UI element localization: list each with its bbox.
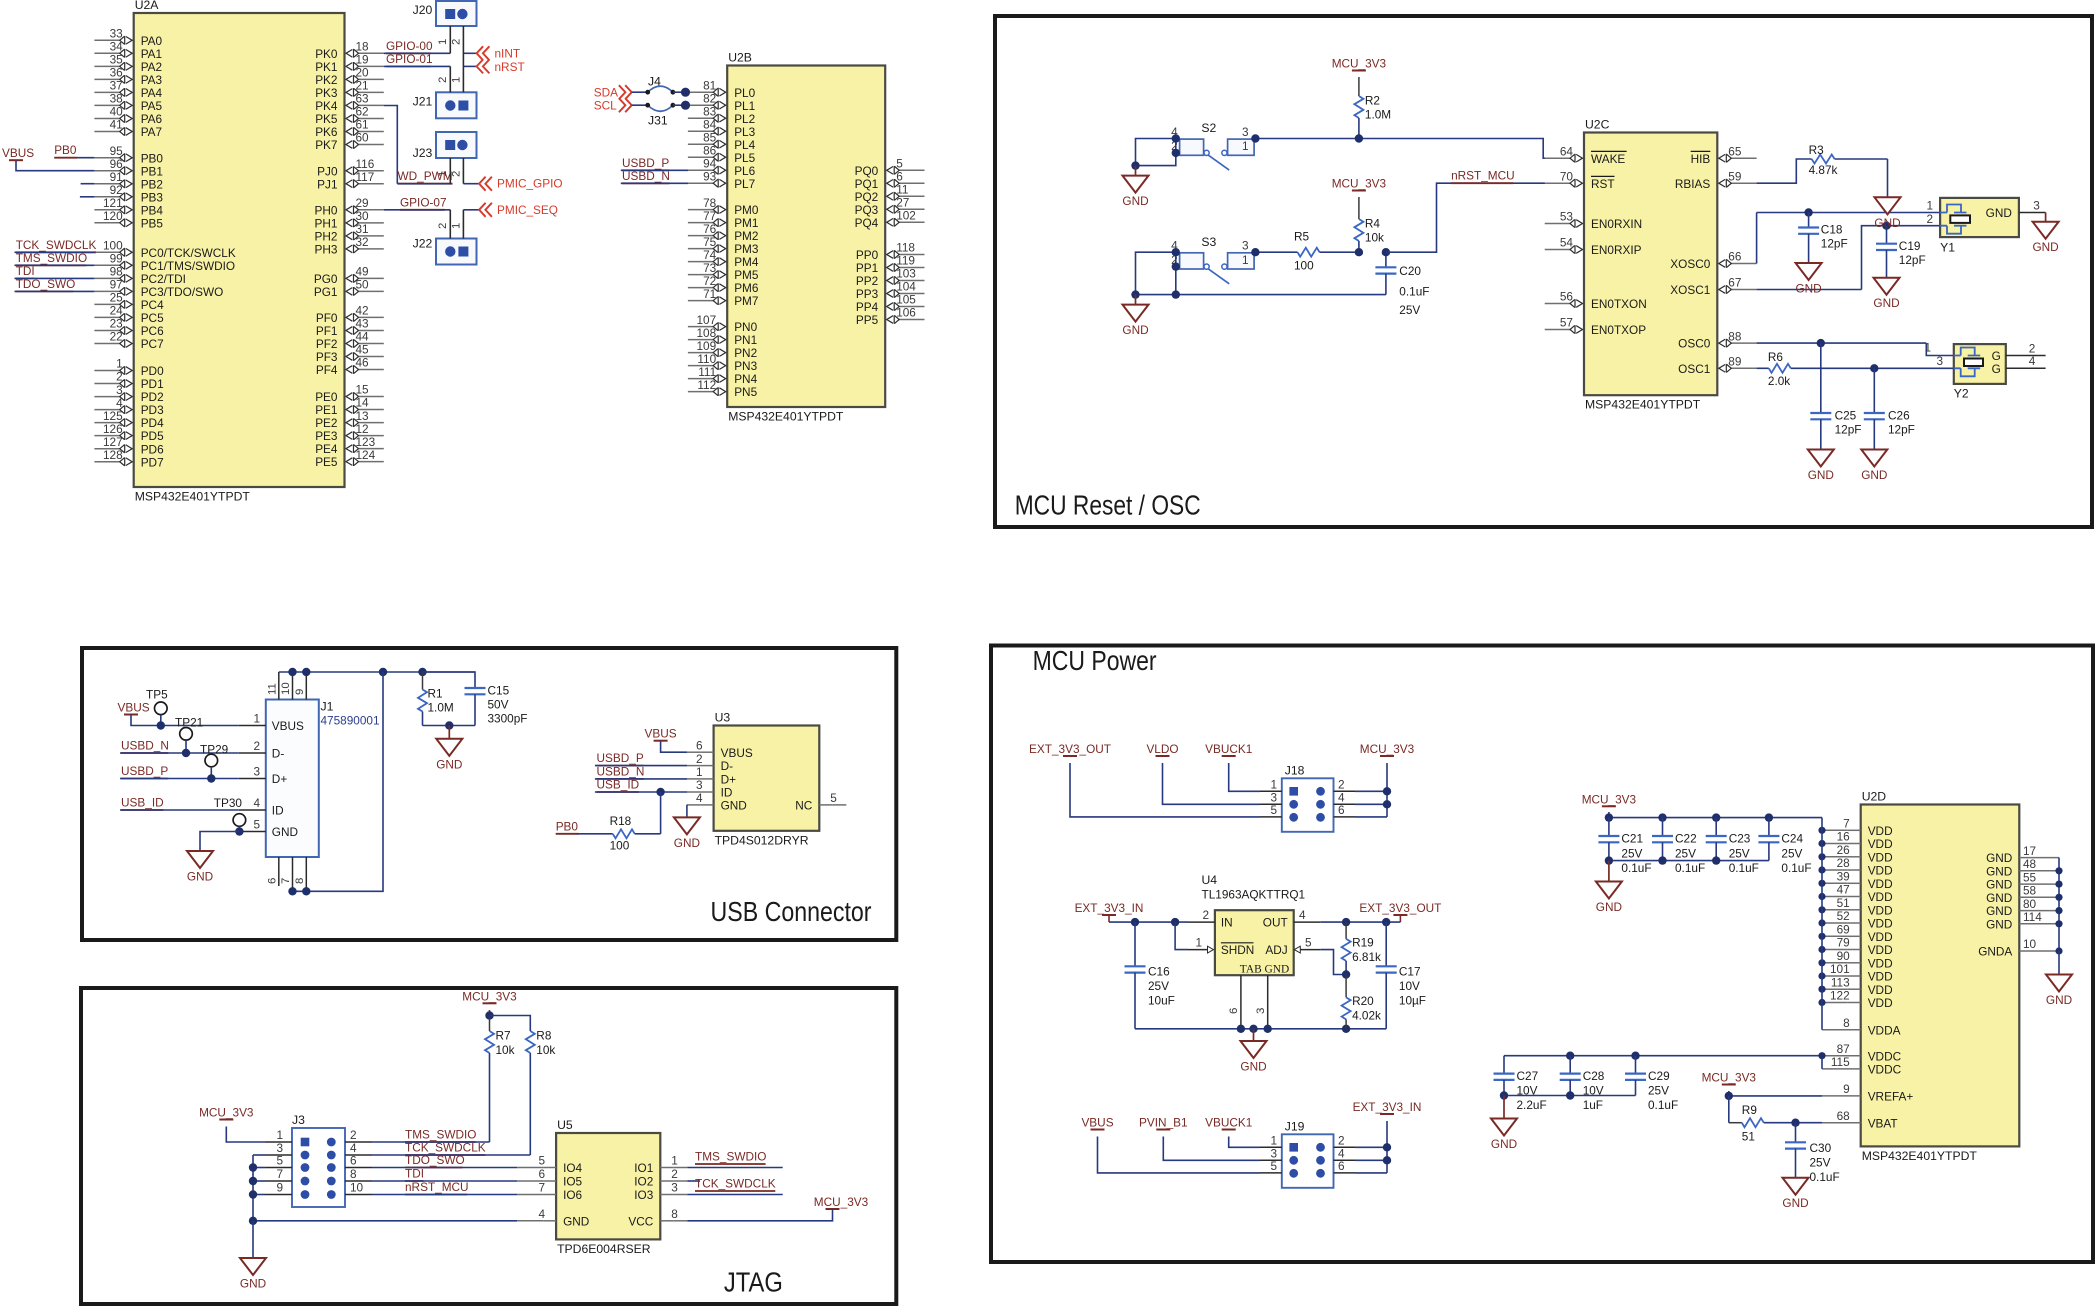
- J20 pin 2 lead: [462, 26, 464, 66]
- junction GNDA: [2055, 947, 2062, 954]
- svg-text:100: 100: [1294, 258, 1314, 272]
- svg-text:OSC1: OSC1: [1678, 362, 1710, 376]
- svg-text:OUT: OUT: [1263, 916, 1288, 930]
- svg-text:D-: D-: [272, 747, 285, 761]
- U2D pin 55 GND: [2019, 883, 2059, 885]
- svg-text:EXT_3V3_IN: EXT_3V3_IN: [1075, 901, 1144, 915]
- U2A pin 3 PD2: [94, 396, 120, 398]
- svg-text:28: 28: [1837, 856, 1851, 870]
- U2D pin 122 VDD: [1822, 1002, 1848, 1004]
- U5 pin 6 IO5: [517, 1180, 543, 1182]
- svg-text:C28: C28: [1583, 1069, 1605, 1083]
- svg-text:VBUS: VBUS: [645, 727, 677, 741]
- IC U2D (MSP432E401YTPDT, power pins): [1861, 805, 2020, 1147]
- svg-text:110: 110: [697, 352, 716, 366]
- wire net USBD_N to J1 pin 2: [120, 752, 239, 754]
- junction C20 top: [1382, 248, 1390, 256]
- svg-text:S3: S3: [1201, 235, 1216, 249]
- svg-text:1: 1: [276, 1128, 283, 1142]
- junction pin10: [288, 668, 296, 676]
- svg-text:25V: 25V: [1810, 1155, 1831, 1169]
- wire net TCK_SWDCLK (U5 IO3): [687, 1194, 782, 1196]
- wire net TDO_SWO: [15, 290, 95, 292]
- svg-text:ID: ID: [721, 786, 733, 800]
- svg-text:VDD: VDD: [1868, 903, 1893, 917]
- ground symbol at C26: [1873, 449, 1875, 451]
- svg-text:ADJ: ADJ: [1265, 943, 1287, 957]
- svg-text:R8: R8: [536, 1029, 552, 1043]
- U3 pin 5 NC: [832, 804, 846, 806]
- section box JTAG: [81, 988, 896, 1304]
- U2C pin 65 HIB: [1730, 157, 1756, 159]
- svg-text:PVIN_B1: PVIN_B1: [1139, 1116, 1188, 1130]
- U2D pin 52 VDD: [1822, 922, 1848, 924]
- svg-text:125: 125: [103, 409, 123, 423]
- capacitor C23 0.1uF 25V: [1715, 818, 1717, 836]
- svg-text:GND: GND: [1986, 917, 2012, 931]
- U3 pin 2 D-: [687, 765, 701, 767]
- U2B pin 111 PN4: [688, 378, 714, 380]
- J18 pin 6 stub: [1334, 816, 1356, 818]
- J22 pin 1 lead: [462, 210, 464, 239]
- U2A pin 40 PA6: [94, 118, 120, 120]
- svg-text:VDD: VDD: [1868, 943, 1893, 957]
- svg-text:MCU Power: MCU Power: [1033, 645, 1157, 676]
- wire net VBUS to PB1: [16, 160, 94, 171]
- junction TP21: [182, 749, 190, 757]
- svg-text:2.2uF: 2.2uF: [1517, 1098, 1547, 1112]
- svg-text:GND: GND: [1122, 194, 1148, 208]
- svg-text:73: 73: [703, 261, 717, 275]
- svg-text:PN5: PN5: [734, 385, 757, 399]
- svg-text:12pF: 12pF: [1835, 423, 1862, 437]
- svg-text:79: 79: [1837, 936, 1850, 950]
- U5 pin 8 VCC: [673, 1220, 687, 1222]
- U2C pin 88 OSC0: [1730, 342, 1756, 344]
- svg-text:21: 21: [356, 79, 369, 93]
- svg-text:PC3/TDO/SWO: PC3/TDO/SWO: [141, 285, 224, 299]
- U2A pin 117 PJ1: [358, 183, 384, 185]
- svg-text:101: 101: [1830, 962, 1850, 976]
- svg-text:VBUS: VBUS: [1081, 1116, 1113, 1130]
- svg-text:122: 122: [1830, 989, 1850, 1003]
- crystal Y2: [1954, 344, 2006, 384]
- U2D pin 115 VDDC: [1822, 1068, 1861, 1070]
- U2A pin 91 PB2: [94, 183, 120, 185]
- wire VBUS to J19 pin 5: [1098, 1137, 1261, 1173]
- svg-text:PK4: PK4: [315, 99, 338, 113]
- U2D pin 16 VDD: [1822, 843, 1848, 845]
- svg-text:J22: J22: [413, 237, 433, 251]
- IC U2A (MSP432E401YTPDT, port A-K section): [134, 13, 345, 487]
- wire stub PB2: [81, 183, 95, 185]
- U2B pin 11 PQ2: [898, 195, 924, 197]
- svg-text:GND: GND: [272, 825, 298, 839]
- svg-text:65: 65: [1728, 144, 1742, 158]
- svg-text:C30: C30: [1810, 1141, 1832, 1155]
- capacitor C21 0.1uF 25V: [1608, 818, 1610, 836]
- U2B pin 77 PM1: [688, 222, 714, 224]
- svg-text:25: 25: [110, 291, 124, 305]
- svg-text:PG1: PG1: [314, 285, 338, 299]
- svg-text:5: 5: [276, 1154, 283, 1168]
- U2D pin 68 VBAT: [1822, 1122, 1861, 1124]
- wire VBUCK1 to J19 pin 1: [1229, 1137, 1260, 1148]
- U2B pin 106 PP5: [898, 319, 924, 321]
- junction S2 pin 3 to wire: [1251, 134, 1259, 142]
- svg-text:PA4: PA4: [141, 86, 163, 100]
- svg-text:19: 19: [356, 53, 369, 67]
- svg-text:84: 84: [703, 117, 717, 131]
- svg-text:2: 2: [451, 171, 463, 177]
- U2B pin 5 PQ0: [898, 169, 924, 171]
- J18 pin 1 stub: [1260, 790, 1282, 792]
- svg-text:66: 66: [1728, 250, 1742, 264]
- svg-text:59: 59: [1728, 169, 1741, 183]
- svg-text:7: 7: [1843, 817, 1850, 831]
- junction TP29: [207, 774, 215, 782]
- svg-text:nRST: nRST: [495, 60, 525, 74]
- U2B pin 103 PP2: [898, 280, 924, 282]
- svg-text:PP1: PP1: [856, 261, 878, 275]
- svg-text:4: 4: [116, 396, 123, 410]
- svg-text:MCU Reset / OSC: MCU Reset / OSC: [1015, 489, 1201, 520]
- U2B pin 107 PN0: [688, 326, 714, 328]
- svg-text:42: 42: [356, 304, 369, 318]
- svg-text:108: 108: [697, 326, 717, 340]
- U4 pin 6 TAB: [1240, 975, 1242, 1029]
- svg-text:115: 115: [1831, 1055, 1850, 1069]
- svg-text:107: 107: [697, 313, 717, 327]
- wire net TCK_SWDCLK: [15, 251, 95, 253]
- svg-text:PM0: PM0: [734, 203, 759, 217]
- svg-text:U3: U3: [715, 711, 731, 725]
- svg-text:4.87k: 4.87k: [1809, 163, 1838, 177]
- svg-text:2: 2: [1202, 908, 1209, 922]
- U2A pin 44 PF2: [358, 343, 384, 345]
- wire ADJ to R19/R20: [1321, 950, 1346, 975]
- svg-text:12pF: 12pF: [1888, 423, 1915, 437]
- svg-text:R9: R9: [1742, 1103, 1757, 1117]
- junction J19 pin4: [1383, 1156, 1391, 1164]
- U2A pin 127 PD6: [94, 448, 120, 450]
- svg-text:PH2: PH2: [315, 230, 338, 244]
- svg-text:0.1uF: 0.1uF: [1675, 861, 1705, 875]
- svg-text:GND: GND: [2032, 240, 2058, 254]
- U2B pin 83 PL2: [688, 117, 714, 119]
- svg-text:91: 91: [110, 170, 123, 184]
- svg-text:PQ0: PQ0: [855, 164, 879, 178]
- junction R1 top: [418, 668, 426, 676]
- svg-text:USBD_P: USBD_P: [622, 156, 669, 170]
- svg-text:45: 45: [356, 343, 370, 357]
- svg-text:PQ2: PQ2: [855, 190, 879, 204]
- U2A pin 50 PG1: [358, 290, 384, 292]
- svg-text:PB3: PB3: [141, 190, 164, 204]
- svg-text:JTAG: JTAG: [724, 1267, 783, 1298]
- svg-text:U2C: U2C: [1585, 118, 1610, 132]
- junction C21 gnd: [1605, 856, 1613, 864]
- harness arrow PMIC_GPIO: [479, 177, 492, 191]
- svg-text:MCU_3V3: MCU_3V3: [1332, 57, 1387, 71]
- svg-text:9: 9: [294, 689, 306, 695]
- svg-text:PC7: PC7: [141, 337, 164, 351]
- U2A pin 2 PD1: [94, 383, 120, 385]
- svg-text:PL2: PL2: [734, 112, 755, 126]
- junction pin9: [302, 668, 310, 676]
- svg-text:475890001: 475890001: [321, 714, 380, 728]
- U5 pin 7 IO6: [517, 1194, 543, 1196]
- svg-text:PA3: PA3: [141, 73, 163, 87]
- U2D pin 48 GND: [2019, 870, 2059, 872]
- svg-text:126: 126: [103, 422, 123, 436]
- ground symbol at C25: [1820, 449, 1822, 451]
- svg-text:GND: GND: [563, 1214, 589, 1228]
- wire net TMS_SWDIO (U5 IO1): [687, 1167, 782, 1169]
- svg-text:GND: GND: [674, 836, 700, 850]
- svg-text:Y2: Y2: [1954, 387, 1969, 401]
- svg-text:44: 44: [356, 330, 370, 344]
- svg-text:5: 5: [1270, 803, 1277, 817]
- svg-text:7: 7: [276, 1167, 283, 1181]
- svg-text:PF0: PF0: [316, 311, 338, 325]
- U5 pin 1 IO1: [673, 1167, 687, 1169]
- U2A pin 25 PC4: [94, 303, 120, 305]
- capacitor C24 0.1uF 25V: [1768, 818, 1770, 836]
- svg-text:3: 3: [696, 778, 703, 792]
- svg-text:R20: R20: [1352, 994, 1374, 1008]
- U2B pin 102 PQ4: [898, 221, 924, 223]
- svg-text:Y1: Y1: [1940, 241, 1955, 255]
- svg-text:PB5: PB5: [141, 216, 164, 230]
- junction C28 top: [1566, 1052, 1574, 1060]
- section box MCU Power: [991, 646, 2093, 1263]
- U2B pin 112 PN5: [688, 391, 714, 393]
- wire GND rail below S3 to C20: [1136, 294, 1386, 296]
- ground symbol at C19: [1886, 277, 1888, 279]
- svg-text:4: 4: [539, 1207, 546, 1221]
- svg-text:EN0TXON: EN0TXON: [1591, 297, 1647, 311]
- wire R18 to USB_ID: [660, 792, 662, 834]
- J3 pin 6 stub: [345, 1167, 372, 1169]
- wire MCU_3V3 to J3 pin 1: [226, 1127, 265, 1143]
- svg-text:VBUS: VBUS: [118, 701, 150, 715]
- junction C28 gnd: [1566, 1091, 1574, 1099]
- svg-text:3: 3: [2033, 198, 2040, 212]
- junction gnd bus: [2055, 907, 2062, 914]
- svg-text:68: 68: [1837, 1109, 1851, 1123]
- svg-text:1: 1: [1270, 777, 1277, 791]
- harness arrow PMIC_SEQ: [479, 203, 492, 217]
- wire EXT_3V3_IN to U4 IN: [1108, 915, 1110, 922]
- svg-text:80: 80: [2023, 897, 2037, 911]
- J3 pin 3 stub: [266, 1154, 293, 1156]
- junction MCU_3V3 / R7 R8: [485, 1011, 493, 1019]
- svg-text:PD7: PD7: [141, 455, 164, 469]
- J18 pin 2 stub: [1334, 790, 1356, 792]
- J18 pin 3 stub: [1260, 803, 1282, 805]
- svg-text:EXT_3V3_OUT: EXT_3V3_OUT: [1029, 742, 1111, 756]
- U2A pin 95 PB0: [94, 157, 120, 159]
- svg-text:GND: GND: [240, 1277, 266, 1291]
- section box MCU Reset / OSC: [995, 16, 2092, 527]
- J23 pin 2 lead: [462, 158, 464, 184]
- ground symbol below S3: [1135, 295, 1137, 305]
- svg-text:PM2: PM2: [734, 229, 758, 243]
- junction S2 pin 2: [1172, 149, 1180, 157]
- svg-text:1: 1: [253, 712, 260, 726]
- svg-text:PL6: PL6: [734, 164, 755, 178]
- svg-text:PD1: PD1: [141, 377, 164, 391]
- U2C pin 64 WAKE: [1545, 157, 1571, 159]
- svg-text:105: 105: [896, 293, 916, 307]
- junction pin8 bottom: [302, 887, 310, 895]
- U2D pin 51 VDD: [1822, 909, 1848, 911]
- U2A pin 124 PE5: [358, 461, 384, 463]
- junction on PL1 wire: [681, 101, 690, 110]
- svg-text:10V: 10V: [1399, 979, 1420, 993]
- svg-text:60: 60: [356, 131, 370, 145]
- U2B pin 72 PM6: [688, 287, 714, 289]
- junction S3 loop to rail: [1172, 290, 1180, 298]
- connector J18 (power select header 2x3): [1282, 778, 1334, 832]
- svg-text:96: 96: [110, 157, 124, 171]
- svg-text:VDD: VDD: [1868, 824, 1893, 838]
- U2A pin 13 PE2: [358, 422, 384, 424]
- svg-text:72: 72: [703, 274, 716, 288]
- svg-text:PE2: PE2: [315, 416, 337, 430]
- svg-text:PL0: PL0: [734, 86, 755, 100]
- svg-text:GND: GND: [1986, 864, 2012, 878]
- U2A pin 43 PF1: [358, 330, 384, 332]
- svg-text:1.0M: 1.0M: [428, 701, 454, 715]
- wire net VBUS to J1 pin 1: [131, 715, 239, 726]
- wire net USBD_N to U3: [595, 778, 687, 780]
- J19 pin 6 stub: [1334, 1172, 1356, 1174]
- svg-text:PA7: PA7: [141, 125, 162, 139]
- svg-text:PM1: PM1: [734, 216, 758, 230]
- svg-text:PP4: PP4: [856, 300, 879, 314]
- wire net USB_ID to J1 pin 4: [120, 809, 239, 811]
- svg-text:TAB GND: TAB GND: [1240, 964, 1289, 976]
- U2D pin 79 VDD: [1822, 949, 1848, 951]
- svg-text:3: 3: [671, 1181, 678, 1195]
- wire EXT_3V3_OUT to J18 pin 5: [1070, 763, 1260, 817]
- J3 pin 9 stub: [266, 1194, 293, 1196]
- svg-text:51: 51: [1837, 896, 1850, 910]
- svg-text:71: 71: [703, 287, 716, 301]
- U2C pin 70 RST: [1545, 182, 1571, 184]
- svg-text:GPIO-00: GPIO-00: [386, 39, 433, 53]
- svg-text:43: 43: [356, 317, 370, 331]
- svg-text:PK7: PK7: [315, 138, 337, 152]
- svg-text:0.1uF: 0.1uF: [1810, 1170, 1840, 1184]
- U2A pin 37 PA4: [94, 91, 120, 93]
- svg-text:PC4: PC4: [141, 298, 164, 312]
- svg-text:TMS_SWDIO: TMS_SWDIO: [16, 251, 87, 265]
- U2A pin 126 PD5: [94, 435, 120, 437]
- U2A pin 125 PD4: [94, 422, 120, 424]
- svg-text:27: 27: [896, 196, 909, 210]
- svg-text:PP3: PP3: [856, 287, 879, 301]
- junction loop: [379, 668, 387, 676]
- svg-text:117: 117: [356, 170, 375, 184]
- wire U2D ground bus: [2058, 858, 2060, 951]
- junction C26 top: [1870, 364, 1878, 372]
- svg-text:5: 5: [896, 157, 903, 171]
- wire net TCK_SWDCLK (J3 pin4 to R8): [372, 1154, 530, 1156]
- junction TP30 on GND wire: [235, 827, 243, 835]
- svg-text:82: 82: [703, 91, 716, 105]
- junction C29 top: [1631, 1052, 1639, 1060]
- U2A pin 98 PC2/TDI: [94, 277, 120, 279]
- J1 pin 3 D+: [239, 778, 266, 780]
- svg-text:1: 1: [1270, 1133, 1277, 1147]
- wire VBUCK1 to J18 pin 1: [1229, 763, 1260, 791]
- IC U5 TPD6E004RSER (JTAG ESD protection): [556, 1133, 660, 1239]
- section box USB Connector: [82, 648, 896, 940]
- U2D pin 17 GND: [2019, 857, 2059, 859]
- U2B pin 119 PP1: [898, 267, 924, 269]
- U2D pin 10 GNDA: [2019, 950, 2059, 952]
- U2C pin 66 XOSC0: [1730, 263, 1756, 265]
- U2B pin 85 PL4: [688, 143, 714, 145]
- svg-text:MCU_3V3: MCU_3V3: [814, 1195, 869, 1209]
- ground symbol at R3: [1887, 196, 1889, 198]
- svg-text:PA0: PA0: [141, 34, 163, 48]
- U2B pin 76 PM2: [688, 235, 714, 237]
- ground symbol U4 rail: [1253, 1029, 1255, 1041]
- U2A pin 22 PC7: [94, 343, 120, 345]
- ground symbol at C27 rail: [1503, 1096, 1505, 1119]
- svg-text:PC6: PC6: [141, 324, 164, 338]
- svg-text:111: 111: [698, 365, 716, 379]
- svg-text:GND: GND: [1782, 1196, 1808, 1210]
- svg-text:G: G: [1992, 362, 2001, 376]
- svg-text:PA5: PA5: [141, 99, 163, 113]
- svg-text:nINT: nINT: [495, 47, 521, 61]
- U2A pin 15 PE0: [358, 396, 384, 398]
- U2A pin 49 PG0: [358, 277, 384, 279]
- U2B pin 74 PM4: [688, 261, 714, 263]
- U2A pin 41 PA7: [94, 131, 120, 133]
- wire net SDA: [632, 91, 648, 93]
- U2A pin 45 PF3: [358, 356, 384, 358]
- svg-text:PP0: PP0: [856, 248, 879, 262]
- svg-text:86: 86: [703, 143, 717, 157]
- wire U4 OUT to EXT_3V3_OUT: [1321, 921, 1401, 923]
- U2D pin 69 VDD: [1822, 935, 1848, 937]
- svg-text:64: 64: [1560, 144, 1574, 158]
- U2A pin 97 PC3/TDO/SWO: [94, 290, 120, 292]
- svg-text:1uF: 1uF: [1583, 1098, 1603, 1112]
- U2A pin 35 PA2: [94, 65, 120, 67]
- svg-text:D+: D+: [721, 773, 737, 787]
- svg-text:58: 58: [2023, 884, 2037, 898]
- svg-text:C27: C27: [1517, 1069, 1539, 1083]
- svg-text:VDD: VDD: [1868, 930, 1893, 944]
- svg-text:6: 6: [896, 170, 903, 184]
- svg-text:PM7: PM7: [734, 294, 758, 308]
- svg-text:0.1uF: 0.1uF: [1648, 1098, 1678, 1112]
- svg-text:26: 26: [1837, 843, 1851, 857]
- U2B pin 75 PM3: [688, 248, 714, 250]
- svg-text:PE3: PE3: [315, 429, 338, 443]
- svg-text:PL3: PL3: [734, 125, 755, 139]
- svg-text:PK6: PK6: [315, 125, 338, 139]
- svg-text:PD4: PD4: [141, 416, 164, 430]
- wire net VBUS to U3 pin 6: [661, 741, 687, 753]
